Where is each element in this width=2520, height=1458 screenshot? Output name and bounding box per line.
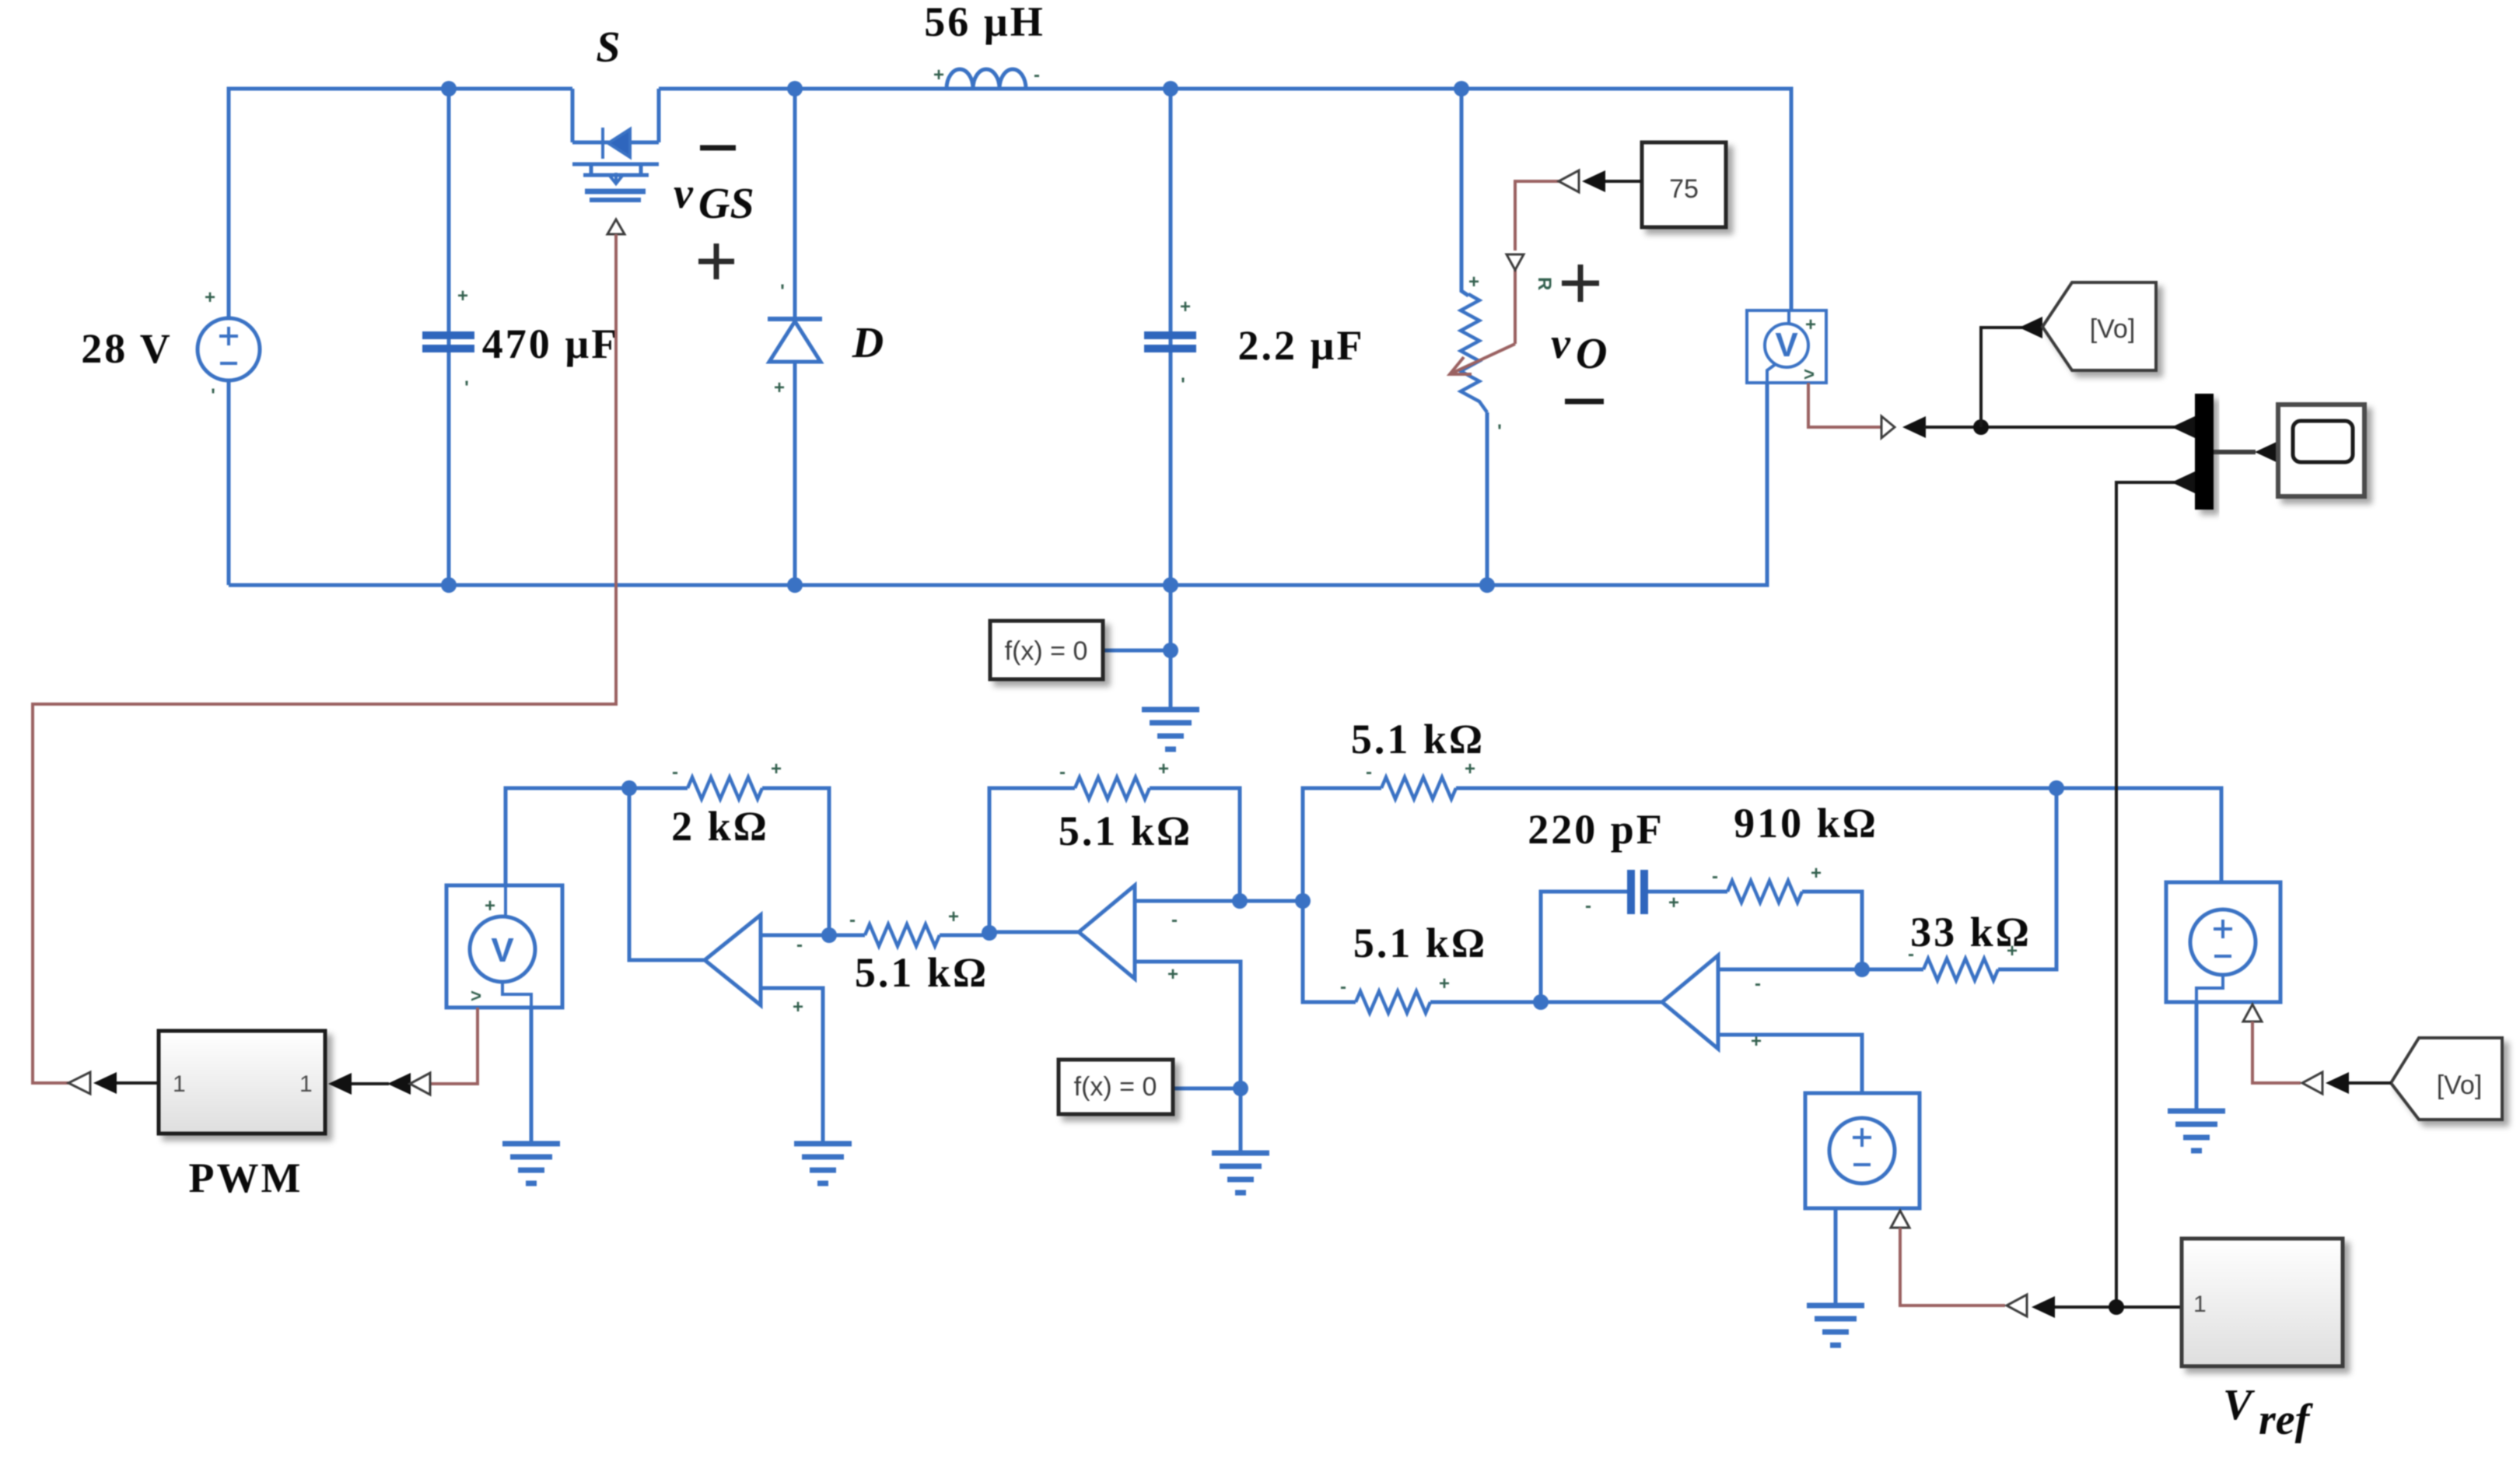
svg-text:R: R <box>1534 277 1555 290</box>
converter triangle at Vo from line <box>2302 1072 2322 1094</box>
wire op-amp2 plus row to ground <box>1135 962 1241 1153</box>
solver configuration block f(x)=0 <box>990 621 1103 679</box>
junction dot vref line <box>2109 1299 2124 1315</box>
signal wire from tag to converter <box>2349 1081 2391 1085</box>
label V of sensor <box>1775 326 1798 364</box>
arrowhead into from converter <box>2326 1072 2349 1094</box>
transistor S (MOSFET switch) <box>572 89 659 200</box>
controlled voltage source bottom <box>1805 1093 1920 1208</box>
marks of 5.1k bus <box>1366 759 1475 783</box>
wire op-amp2 feedback riser <box>989 788 1075 933</box>
svg-text:': ' <box>1497 421 1502 442</box>
wire op-amp3 plus row to source <box>1718 1035 1862 1093</box>
mux block <box>2195 394 2214 510</box>
wire bus riser up <box>1303 788 1381 901</box>
capacitor C1 470 uF <box>422 331 474 352</box>
svg-text:ref: ref <box>2259 1396 2314 1444</box>
svg-text:-: - <box>1755 973 1761 994</box>
op-amp U2 <box>1079 885 1135 979</box>
op-amp U2 input marks <box>1167 909 1178 985</box>
wire left rail bottom <box>227 380 231 585</box>
wire bottom rail <box>229 383 1767 585</box>
svg-text:+: + <box>1167 964 1178 985</box>
svg-text:-: - <box>1366 762 1372 783</box>
wire 5.1k to op-amp2 output junction <box>940 932 989 935</box>
junction dot top rail at diode <box>787 81 803 96</box>
junction dot solver2 tap <box>1233 1081 1248 1096</box>
svg-text:-: - <box>796 934 803 955</box>
svg-text:+: + <box>1668 892 1679 913</box>
svg-text:+: + <box>205 287 215 308</box>
svg-text:+: + <box>771 759 782 780</box>
variable resistor R load <box>1461 294 1487 412</box>
wire potentiometer bottom lead <box>1486 412 1489 585</box>
from tag Vo <box>2391 1038 2502 1120</box>
svg-text:2 kΩ: 2 kΩ <box>671 803 769 850</box>
voltage sensor Vo <box>1747 310 1826 383</box>
svg-text:>: > <box>471 986 481 1007</box>
wire bus to controlled source <box>1456 788 2221 882</box>
junction dot bottom rail at diode <box>787 577 803 593</box>
label 33 kOhm <box>1910 909 2032 955</box>
label R rotated <box>1534 277 1555 290</box>
label D <box>852 319 884 367</box>
label 5.1 kOhm feedback <box>1059 808 1192 854</box>
signal wire 75 to converter <box>1604 180 1642 183</box>
svg-text:-: - <box>1171 909 1178 931</box>
junction dot bottom rail at 2.2uF <box>1163 577 1178 593</box>
goto tag Vo <box>2042 282 2156 370</box>
resistor 5.1 kOhm to bus <box>1381 777 1456 799</box>
wire op-amp2 minus row <box>1135 899 1303 903</box>
junction dot op-amp2 output <box>982 925 997 941</box>
signal wire converter to PWM <box>117 1081 159 1085</box>
svg-text:+: + <box>1465 759 1475 780</box>
wire solver node branch <box>1169 585 1173 710</box>
ps wire sensor output <box>1808 383 1881 427</box>
converter triangle at 75 <box>1559 170 1579 192</box>
junction dot bus at 33k riser <box>2049 780 2064 796</box>
svg-text:+: + <box>774 377 785 398</box>
wire solver2 to node <box>1173 1087 1241 1091</box>
svg-text:[Vo]: [Vo] <box>2090 314 2136 344</box>
polarity marks of D <box>774 281 785 398</box>
svg-text:+: + <box>2007 941 2018 962</box>
wire op-amp3 minus row <box>1718 968 1923 972</box>
svg-text:+: + <box>933 65 944 86</box>
gate port triangle of S <box>607 219 625 234</box>
svg-text:+: + <box>485 895 495 917</box>
wire 2k to op-amp1 minus <box>762 788 829 935</box>
op-amp U3 <box>1662 955 1718 1049</box>
svg-text:5.1 kΩ: 5.1 kΩ <box>1353 920 1487 966</box>
ps wire sensor out to PWM converter <box>418 1008 478 1084</box>
voltage sensor control <box>446 885 562 1008</box>
marks of 5.1k feedback <box>1059 759 1169 783</box>
marks of 5.1k input <box>849 906 959 931</box>
capacitor 220 pF <box>1627 870 1648 914</box>
svg-text:+: + <box>1439 973 1450 994</box>
label 5.1 kOhm lower <box>1353 920 1487 966</box>
signal port triangle bottom source <box>1891 1211 1909 1228</box>
converter triangle at sensor to PWM <box>410 1073 430 1095</box>
svg-text:f(x) = 0: f(x) = 0 <box>1005 636 1088 666</box>
solver configuration block 2 f(x)=0 <box>1059 1060 1173 1114</box>
svg-text:28 V: 28 V <box>81 325 173 372</box>
svg-text:-: - <box>849 909 856 931</box>
svg-text:+: + <box>1158 759 1169 780</box>
svg-text:': ' <box>1181 374 1185 395</box>
wire op-amp1 minus row <box>761 934 865 938</box>
svg-text:S: S <box>596 23 620 72</box>
label PWM <box>189 1155 303 1201</box>
svg-text:-: - <box>1585 895 1591 917</box>
resistor 5.1 kOhm feedback of op-amp2 <box>1075 777 1150 799</box>
label 910 kOhm <box>1734 800 1878 846</box>
converter triangle on wiper line <box>1507 254 1524 270</box>
junction dot top rail at 470uF <box>441 81 457 96</box>
junction dot scope line <box>1973 419 1989 435</box>
ground at top source <box>2168 1111 2225 1151</box>
converter triangle at Vref line <box>2007 1295 2027 1316</box>
arrowhead into vref converter <box>2032 1296 2055 1318</box>
marks of 33k <box>1908 941 2018 965</box>
junction dot 2k row <box>621 780 637 796</box>
wire top rail left segment <box>229 89 572 318</box>
label 2.2 uF <box>1237 322 1364 369</box>
junction dot at solver tap <box>1163 643 1178 658</box>
svg-text:910 kΩ: 910 kΩ <box>1734 800 1878 846</box>
label 56 uH <box>924 0 1045 45</box>
arrowhead sensor converter to mux line <box>1902 416 1926 438</box>
svg-text:v: v <box>674 170 694 218</box>
wire 2k row left lead <box>629 787 688 790</box>
svg-text:-: - <box>672 762 678 783</box>
svg-text:+: + <box>1180 296 1191 317</box>
inductor L 56 uH <box>947 69 1026 89</box>
arrowhead into converter left <box>93 1072 117 1094</box>
sensor marks <box>1804 314 1816 385</box>
marks of 910k <box>1712 863 1822 887</box>
svg-text:2.2 µF: 2.2 µF <box>1237 322 1364 369</box>
label 5.1 kOhm input <box>855 949 989 996</box>
svg-text:+: + <box>793 997 803 1018</box>
polarity marks of L <box>933 65 1040 86</box>
svg-text:[Vo]: [Vo] <box>2437 1071 2483 1100</box>
wire from solver block to node <box>1103 649 1171 653</box>
svg-text:75: 75 <box>1669 174 1699 204</box>
arrowhead into scope <box>2255 441 2278 463</box>
signal wire sensor to mux <box>1924 426 2192 429</box>
label 5.1 kOhm bus <box>1351 716 1485 762</box>
SECTION: signal blocks <box>68 282 2502 1444</box>
controlled voltage source top <box>2166 882 2280 1002</box>
resistor 2 kOhm <box>688 777 762 799</box>
resistor 33 kOhm <box>1923 959 1998 980</box>
signal wire Vref to converter <box>2053 1306 2182 1309</box>
svg-text:PWM: PWM <box>189 1155 303 1201</box>
ground electrical reference of power circuit <box>1142 710 1199 749</box>
marks of 5.1k lower <box>1340 973 1450 997</box>
resistor 910 kOhm <box>1727 881 1802 902</box>
wire lower row to op-amp3 <box>1430 1001 1662 1004</box>
svg-text:1: 1 <box>299 1071 313 1097</box>
node + mark of 28 V source <box>205 287 215 406</box>
signal wire mux to scope <box>2214 450 2256 454</box>
label 220 pF <box>1528 806 1664 853</box>
svg-text:V: V <box>491 931 514 969</box>
svg-text:D: D <box>852 319 884 367</box>
polarity marks of C2 <box>1180 296 1191 395</box>
wire op-amp2 output to junction <box>989 931 1079 934</box>
svg-text:5.1 kΩ: 5.1 kΩ <box>1059 808 1192 854</box>
converter triangle at PWM input <box>68 1072 90 1094</box>
wire minus row down to lower 5.1k row <box>1303 901 1356 1002</box>
op-amp U1 <box>705 915 761 1005</box>
marks of 2k <box>672 759 782 783</box>
marks of 220pF <box>1585 892 1679 917</box>
wire potentiometer top lead <box>1461 89 1468 296</box>
wire bottom source minus to ground <box>1834 1208 1838 1306</box>
ground at op-amp1 plus <box>794 1144 852 1183</box>
svg-text:5.1 kΩ: 5.1 kΩ <box>855 949 989 996</box>
signal wire branch to goto tag <box>1981 328 2038 427</box>
SECTION: control circuit <box>418 716 2322 1345</box>
wiper arrow through R <box>1450 344 1515 374</box>
label 28 V <box>81 325 173 372</box>
svg-text:+: + <box>948 906 959 927</box>
wire top source minus to ground <box>2195 1002 2199 1111</box>
arrowhead into goto <box>2019 317 2042 338</box>
junction dot top rail at load <box>1454 81 1469 96</box>
svg-text:470 µF: 470 µF <box>482 321 620 367</box>
label S <box>596 23 620 72</box>
junction dot lower row riser <box>1533 994 1549 1010</box>
svg-text:+: + <box>1805 314 1816 335</box>
wire 33k up to bus <box>1998 788 2056 969</box>
arrowhead into mux input2 <box>2172 471 2195 493</box>
label + vo - <box>1551 265 1607 401</box>
wire control sensor minus to ground <box>530 1008 534 1144</box>
wire op-amp1 output loop <box>629 788 705 960</box>
junction dot op-amp3 minus row <box>1854 962 1870 977</box>
svg-text:f(x) = 0: f(x) = 0 <box>1074 1072 1157 1102</box>
arrowhead into mux input1 <box>2172 416 2195 438</box>
port 1 labels of PWM <box>173 1071 313 1097</box>
wire sensor to 2k row <box>506 788 629 887</box>
signal wire PWM right to converter <box>352 1082 389 1085</box>
capacitor C2 2.2 uF <box>1144 331 1196 352</box>
wire feedback down to minus row <box>1150 788 1240 901</box>
resistor 5.1 kOhm input of op-amp1 <box>865 924 940 946</box>
control sensor marks <box>471 895 495 1007</box>
junction dot top rail at 2.2uF <box>1163 81 1178 96</box>
wire 220pF to 910k <box>1648 890 1727 894</box>
svg-text:': ' <box>780 281 785 302</box>
svg-text:>: > <box>1804 364 1815 385</box>
PWM subsystem block <box>159 1031 325 1134</box>
svg-text:+: + <box>457 286 468 307</box>
op-amp U3 input marks <box>1751 973 1762 1052</box>
label vGS with polarity <box>674 148 754 279</box>
ps wire Vref to bottom source <box>1900 1228 2005 1306</box>
wire 2.2uF branch <box>1169 89 1173 585</box>
wire top rail right segment <box>659 89 1791 310</box>
svg-text:220 pF: 220 pF <box>1528 806 1664 853</box>
svg-text:+: + <box>1468 272 1479 293</box>
svg-text:1: 1 <box>2193 1292 2207 1317</box>
svg-text:v: v <box>1551 320 1571 368</box>
subsystem block Vref <box>2182 1239 2343 1366</box>
junction dot bottom rail at load <box>1479 577 1495 593</box>
label 2 kOhm <box>671 803 769 850</box>
svg-text:': ' <box>464 377 469 398</box>
svg-text:O: O <box>1576 330 1607 378</box>
ps wire Vo tag to top source <box>2252 1022 2301 1083</box>
op-amp U1 input marks <box>793 934 803 1018</box>
svg-text:-: - <box>1059 762 1066 783</box>
junction dot feedback at minus row <box>1232 893 1248 909</box>
SECTION: top power circuit <box>33 0 1895 1083</box>
svg-text:V: V <box>1775 326 1798 364</box>
wire 910k down to minus row <box>1802 892 1862 969</box>
ground at control sensor <box>502 1144 560 1183</box>
wire op-amp1 plus to ground <box>761 988 823 1144</box>
polarity marks of R load <box>1468 272 1502 442</box>
ground at op-amp2 plus <box>1212 1153 1269 1193</box>
svg-text:-: - <box>1712 866 1718 887</box>
svg-text:-: - <box>1908 944 1914 965</box>
svg-text:-: - <box>1340 976 1346 997</box>
svg-text:V: V <box>2223 1381 2256 1429</box>
voltage source V1 28 V <box>198 318 260 380</box>
label Vref <box>2223 1381 2314 1444</box>
arrowhead into PWM right <box>328 1073 352 1095</box>
signal port triangle top source <box>2243 1004 2262 1022</box>
wire riser to 220pF row <box>1541 892 1627 1002</box>
svg-text:': ' <box>211 385 215 406</box>
arrowhead into second converter <box>387 1073 411 1095</box>
junction dot bottom rail at 470uF <box>441 577 457 593</box>
svg-text:+: + <box>1811 863 1822 884</box>
wire 470uF branch <box>447 89 451 585</box>
signal wire vref riser to mux input2 <box>2116 482 2192 1307</box>
polarity marks of C1 <box>457 286 469 398</box>
wire diode branch <box>793 89 797 585</box>
svg-text:5.1 kΩ: 5.1 kΩ <box>1351 716 1485 762</box>
arrowhead into converter <box>1582 170 1605 192</box>
diode D <box>768 319 822 362</box>
junction dot minus row to bus riser <box>1295 893 1311 909</box>
scope block <box>2278 405 2364 496</box>
converter triangle sensor output <box>1881 416 1895 438</box>
svg-text:56 µH: 56 µH <box>924 0 1045 45</box>
label V of control sensor <box>491 931 514 969</box>
constant block 75 <box>1642 142 1726 227</box>
junction dot op-amp1 minus <box>821 927 837 943</box>
svg-text:-: - <box>1034 65 1040 86</box>
ps wire from 75 gain to wiper <box>1515 181 1559 344</box>
ground at bottom source <box>1807 1306 1864 1345</box>
ps wire PWM gate line <box>33 234 616 1083</box>
resistor 5.1 kOhm lower <box>1356 991 1430 1013</box>
label 470 uF <box>482 321 620 367</box>
svg-text:GS: GS <box>698 180 754 228</box>
svg-text:1: 1 <box>173 1071 186 1097</box>
